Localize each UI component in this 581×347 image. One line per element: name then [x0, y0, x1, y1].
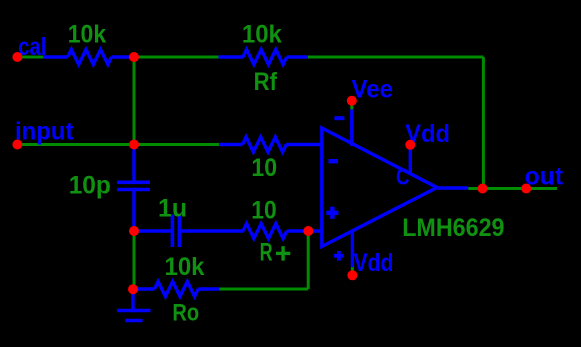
resistor R+ 10 (non-inverting) [219, 224, 322, 239]
svg-text:cal: cal [18, 33, 46, 61]
junction node at R1 right [129, 52, 139, 62]
label R+ [260, 239, 291, 267]
wire top net R1 to Rf [134, 56, 219, 59]
label input net name [15, 118, 74, 146]
ground symbol [117, 291, 151, 321]
svg-text:10k: 10k [68, 21, 106, 49]
label 10k for Rf [242, 21, 282, 49]
label LMH6629 [402, 214, 504, 242]
label 10p for C1 [69, 171, 111, 199]
svg-text:input: input [15, 118, 74, 146]
label 10k for R1 [68, 21, 106, 49]
label 10 for R2 [251, 154, 277, 182]
wire input net [17, 143, 219, 146]
svg-text:Vee: Vee [352, 75, 394, 103]
wire cal pin stub [17, 56, 43, 59]
node out pin dot [521, 184, 531, 194]
label Vdd upper [405, 120, 450, 148]
wire output net [468, 187, 557, 190]
svg-text:10k: 10k [165, 253, 205, 281]
junction node C1 bottom [129, 226, 139, 236]
svg-text:10: 10 [251, 154, 277, 182]
pin Vdd upper power [409, 149, 412, 175]
svg-text:C: C [396, 164, 410, 190]
junction node input column [129, 140, 139, 150]
label cal net name [18, 33, 46, 61]
resistor Rf 10k [219, 50, 309, 65]
label Vdd lower [354, 249, 394, 277]
label Rf [254, 68, 278, 96]
capacitor C1 10p [117, 146, 150, 231]
wire Vee stub [350, 101, 353, 110]
node Vee pin dot [347, 96, 357, 106]
wire vertical up to non-inverting input [307, 231, 310, 289]
svg-text:1u: 1u [158, 194, 187, 222]
label 10 for R+ [251, 197, 276, 225]
label out net name [525, 162, 564, 190]
junction node ground [128, 284, 138, 294]
op-amp Vdd plus marker [334, 251, 344, 261]
svg-text:LMH6629: LMH6629 [402, 214, 504, 242]
wire Ro to non-inverting column [220, 288, 309, 291]
wire right vertical feedback [482, 57, 485, 189]
svg-text:10p: 10p [69, 171, 111, 199]
label Ro [172, 299, 199, 326]
resistor Ro 10k [131, 282, 220, 297]
svg-text:Rf: Rf [254, 68, 278, 96]
resistor R2 10 (inverting input) [219, 137, 322, 152]
op-amp non-inverting marker [326, 207, 338, 219]
junction node output feedback [478, 184, 488, 194]
pin Vee power [350, 109, 353, 146]
svg-text:10: 10 [251, 197, 276, 225]
wire Vdd lower stub [351, 267, 354, 275]
svg-text:R: R [260, 239, 273, 267]
label Vee [352, 75, 394, 103]
node cal pin dot [12, 52, 22, 62]
op-amp output pin [437, 186, 468, 189]
resistor R1 10k (cal input) [43, 50, 133, 65]
op-amp Vee minus marker [334, 116, 344, 120]
svg-text:10k: 10k [242, 21, 282, 49]
wire C1 bottom to ground junction [133, 231, 136, 289]
label 10k for Ro [165, 253, 205, 281]
junction node non-inverting input [303, 226, 313, 236]
op-amp inverting marker [329, 159, 339, 163]
svg-text:Vdd: Vdd [354, 249, 394, 277]
svg-text:Ro: Ro [172, 299, 199, 326]
wire top net Rf to right corner [308, 56, 483, 59]
label 1u for C2 [158, 194, 187, 222]
pin Vdd lower power [351, 231, 354, 268]
op-amp U1 triangle [322, 128, 437, 247]
node input pin dot [12, 140, 22, 150]
label C case pin [396, 164, 410, 190]
wire vertical junction column [133, 57, 136, 145]
node Vdd lower pin dot [347, 270, 357, 280]
capacitor C2 1u [136, 215, 219, 248]
node Vdd upper pin dot [405, 140, 415, 150]
